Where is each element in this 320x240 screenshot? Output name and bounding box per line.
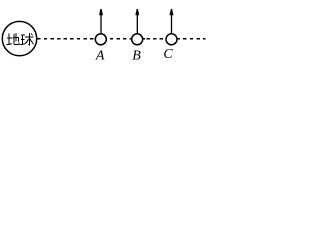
arrow above C xyxy=(170,9,174,34)
dashed line: ball C to right edge xyxy=(170,38,206,40)
arrow above A xyxy=(99,9,103,34)
dashed line: Earth to ball B xyxy=(37,38,145,40)
svg-text:A: A xyxy=(95,48,105,63)
svg-text:C: C xyxy=(163,47,173,62)
ball C xyxy=(166,34,177,45)
background xyxy=(0,0,206,68)
dashed line: ball B to ball C xyxy=(146,38,164,40)
arrow above B xyxy=(135,9,139,34)
label 球 (drawn strokes) xyxy=(20,33,33,45)
Earth circle xyxy=(2,21,36,55)
label 地 (drawn strokes) xyxy=(6,33,19,45)
svg-text:B: B xyxy=(132,48,141,63)
ball A xyxy=(95,34,106,45)
ball B xyxy=(132,34,143,45)
